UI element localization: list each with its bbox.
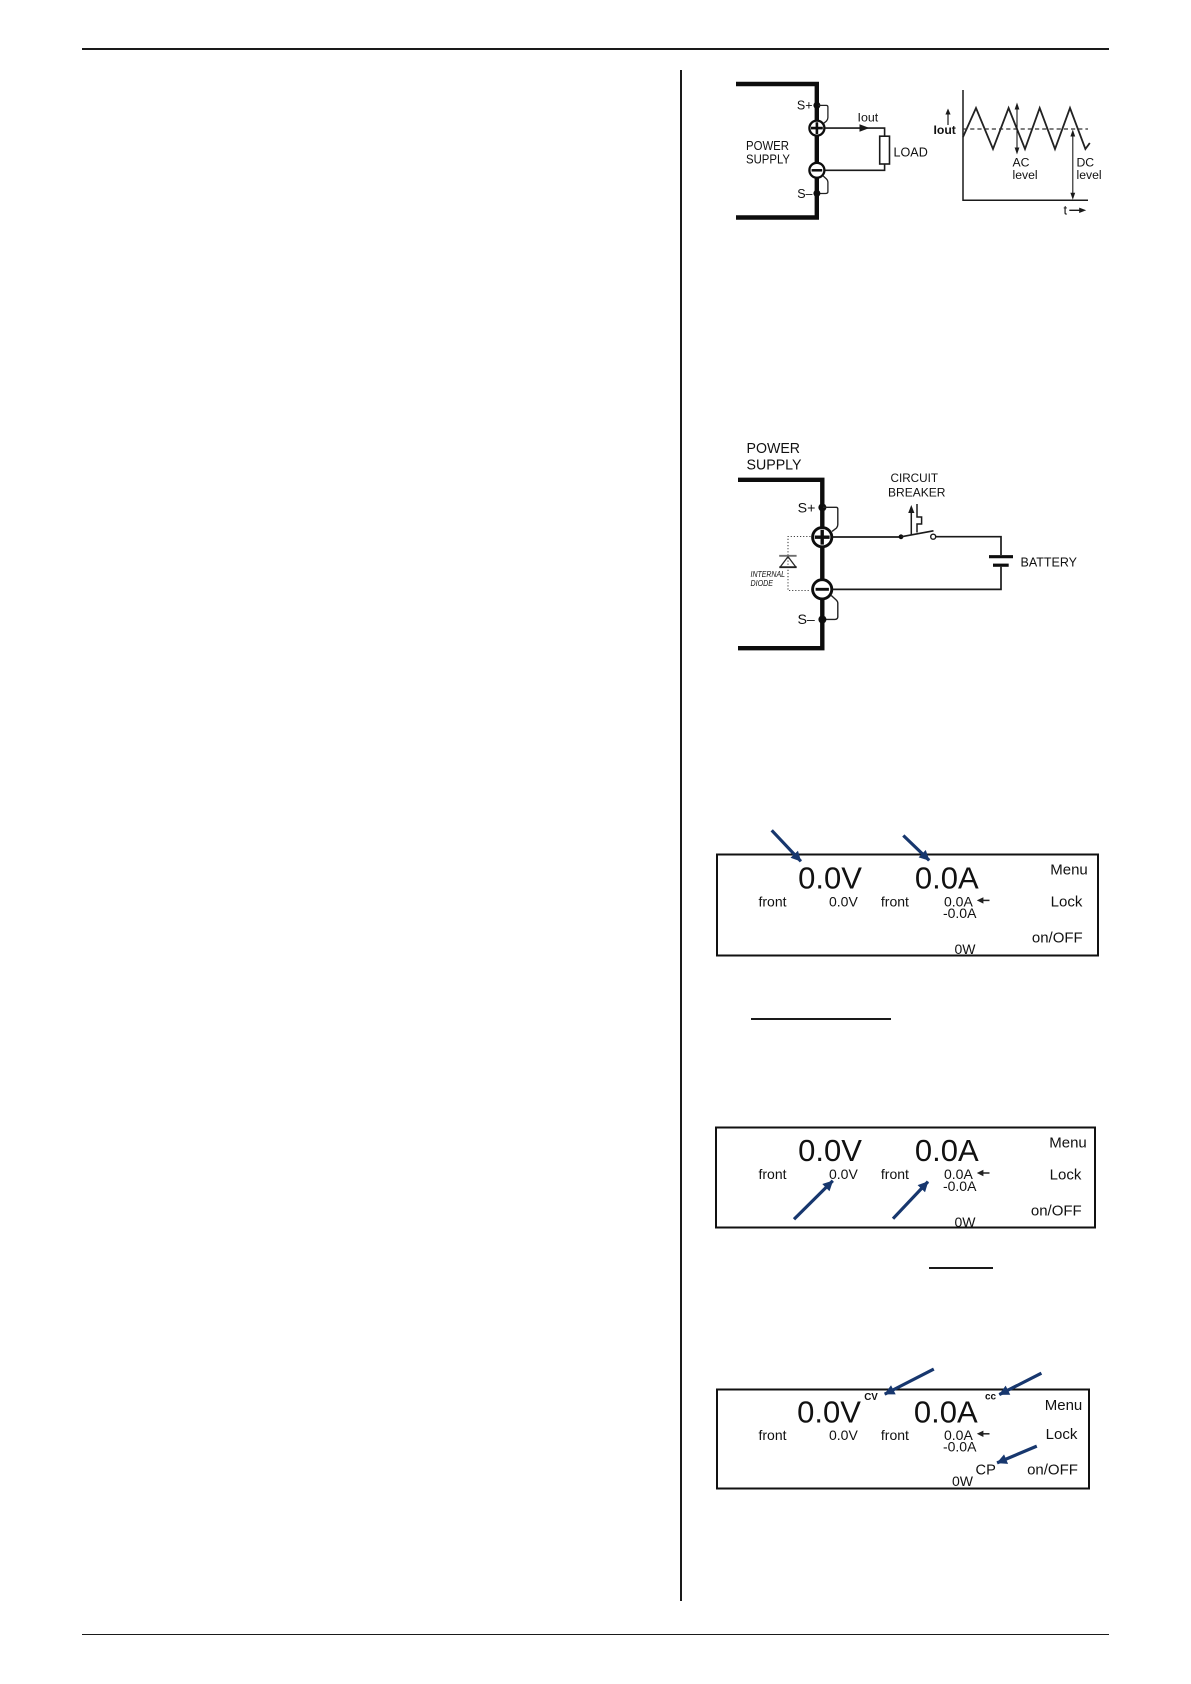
bottom rule xyxy=(82,1634,1109,1636)
svg-text:0.0A: 0.0A xyxy=(915,1133,979,1168)
node S- (dot) xyxy=(813,190,820,197)
battery plate (long) xyxy=(989,555,1013,558)
svg-text:DIODE: DIODE xyxy=(751,578,774,588)
svg-text:level: level xyxy=(1013,168,1038,182)
- output terminal xyxy=(809,163,824,178)
PANEL 2 : display screen xyxy=(700,1100,1120,1290)
svg-text:0.0V: 0.0V xyxy=(798,1133,862,1168)
DC level measure line with arrows xyxy=(1072,133,1074,196)
svg-text:level: level xyxy=(1077,168,1102,182)
svg-text:S+: S+ xyxy=(797,99,813,113)
svg-text:-0.0A: -0.0A xyxy=(943,905,977,921)
svg-text:0W: 0W xyxy=(952,1473,974,1489)
breaker blade xyxy=(901,531,934,537)
svg-text:Menu: Menu xyxy=(1045,1397,1083,1414)
PANEL 3 : display screen xyxy=(700,1360,1120,1500)
breaker trip bump xyxy=(917,504,922,533)
node S- (dot) xyxy=(818,616,826,624)
svg-text:0.0V: 0.0V xyxy=(829,1427,858,1443)
+ output terminal xyxy=(809,121,824,136)
svg-text:0W: 0W xyxy=(955,941,977,957)
small left arrow after 0.0A xyxy=(980,1433,990,1435)
svg-text:Lock: Lock xyxy=(1046,1426,1078,1443)
pointer arrow to setpoint 0.0V xyxy=(794,1181,833,1219)
svg-text:on/OFF: on/OFF xyxy=(1032,929,1083,946)
small up arrow above Iout label xyxy=(947,112,949,125)
wire battery back to - terminal xyxy=(833,567,1001,590)
svg-text:0.0A: 0.0A xyxy=(914,1394,978,1429)
sense jumper bracket S+ to + terminal xyxy=(823,507,838,531)
sense jumper bracket - terminal to S- xyxy=(824,596,838,620)
svg-text:S+: S+ xyxy=(798,500,816,516)
svg-text:front: front xyxy=(881,1166,909,1182)
breaker left contact (filled dot) xyxy=(899,534,904,539)
resistor LOAD xyxy=(880,136,890,164)
power supply box (thick open-left outline) xyxy=(736,84,817,218)
wire load to - terminal xyxy=(825,164,885,170)
svg-text:Lock: Lock xyxy=(1051,893,1083,910)
display bezel box xyxy=(717,855,1098,956)
svg-text:front: front xyxy=(758,1427,786,1443)
svg-text:cc: cc xyxy=(985,1392,997,1403)
svg-text:BATTERY: BATTERY xyxy=(1021,555,1078,570)
svg-text:0.0V: 0.0V xyxy=(798,861,862,896)
svg-text:0.0A: 0.0A xyxy=(915,861,979,896)
svg-text:front: front xyxy=(758,1166,786,1182)
pointer arrow to cc xyxy=(999,1373,1041,1394)
svg-text:0.0V: 0.0V xyxy=(797,1394,861,1429)
AC level measure line with arrows xyxy=(1016,107,1018,150)
svg-text:front: front xyxy=(758,894,786,910)
top rule xyxy=(82,48,1109,50)
power supply box (thick open-left outline) xyxy=(738,480,822,648)
svg-text:BREAKER: BREAKER xyxy=(888,486,946,500)
svg-text:S–: S– xyxy=(797,187,812,201)
svg-text:0.0V: 0.0V xyxy=(829,894,858,910)
pointer arrow to 0.0V xyxy=(772,830,801,861)
battery plate (short) xyxy=(993,564,1009,567)
svg-text:0.0V: 0.0V xyxy=(829,1166,858,1182)
display bezel box xyxy=(717,1390,1089,1489)
small left arrow after 0.0A xyxy=(980,1172,990,1174)
+ output terminal xyxy=(813,528,832,547)
svg-text:t: t xyxy=(1064,203,1068,218)
DIAGRAM 1 : power supply with load and ripple waveform xyxy=(700,60,1120,240)
svg-text:SUPPLY: SUPPLY xyxy=(746,151,790,166)
PANEL 1 : display screen xyxy=(700,815,1120,1035)
pointer arrow to CV xyxy=(885,1369,934,1394)
svg-text:CV: CV xyxy=(864,1392,878,1403)
small left arrow after 0.0A xyxy=(980,899,990,901)
ripple triangle waveform xyxy=(963,108,1090,149)
svg-text:POWER: POWER xyxy=(747,441,801,457)
arrowhead Iout on wire xyxy=(860,124,870,131)
sense jumper bracket S+ to + terminal xyxy=(818,105,828,123)
sense jumper bracket - terminal to S- xyxy=(818,176,828,194)
svg-text:CP: CP xyxy=(976,1462,996,1478)
svg-text:-0.0A: -0.0A xyxy=(943,1178,977,1194)
svg-text:Menu: Menu xyxy=(1049,1135,1087,1152)
svg-text:front: front xyxy=(881,894,909,910)
svg-text:on/OFF: on/OFF xyxy=(1031,1202,1082,1219)
dotted connection to internal diode (top) xyxy=(788,537,811,591)
pointer arrow to CP xyxy=(997,1446,1037,1463)
breaker actuator arrow xyxy=(910,510,912,535)
svg-text:Iout: Iout xyxy=(858,111,879,125)
waveform axes xyxy=(963,90,1088,200)
svg-text:0W: 0W xyxy=(955,1214,977,1230)
svg-text:LOAD: LOAD xyxy=(894,146,928,160)
column divider xyxy=(680,70,682,1601)
pointer arrow to setpoint 0.0A xyxy=(893,1182,928,1219)
breaker right contact (open circle) xyxy=(931,534,936,539)
underline blank below panel 2 xyxy=(929,1267,994,1269)
node S+ (dot) xyxy=(813,102,820,109)
svg-text:-0.0A: -0.0A xyxy=(943,1439,977,1455)
wire + terminal to load (Iout) xyxy=(825,128,885,136)
underline blank below panel 1 xyxy=(751,1018,891,1020)
svg-text:front: front xyxy=(881,1427,909,1443)
node S+ (dot) xyxy=(818,503,826,511)
internal diode (cathode bar + triangle) xyxy=(779,555,796,557)
- output terminal xyxy=(813,580,832,599)
wire breaker to battery xyxy=(936,537,1001,555)
dashed DC level line xyxy=(963,128,1088,130)
svg-text:S–: S– xyxy=(797,612,814,628)
display bezel box xyxy=(716,1128,1095,1228)
DIAGRAM 2 : power supply with circuit breaker and battery xyxy=(730,432,1090,652)
svg-text:Lock: Lock xyxy=(1050,1166,1082,1183)
pointer arrow to 0.0A xyxy=(903,836,929,861)
svg-text:Menu: Menu xyxy=(1050,862,1088,879)
svg-text:Iout: Iout xyxy=(934,123,956,137)
svg-text:on/OFF: on/OFF xyxy=(1027,1461,1078,1478)
wire + terminal to breaker contact xyxy=(833,536,900,538)
svg-text:CIRCUIT: CIRCUIT xyxy=(891,471,939,485)
svg-text:SUPPLY: SUPPLY xyxy=(747,458,802,474)
